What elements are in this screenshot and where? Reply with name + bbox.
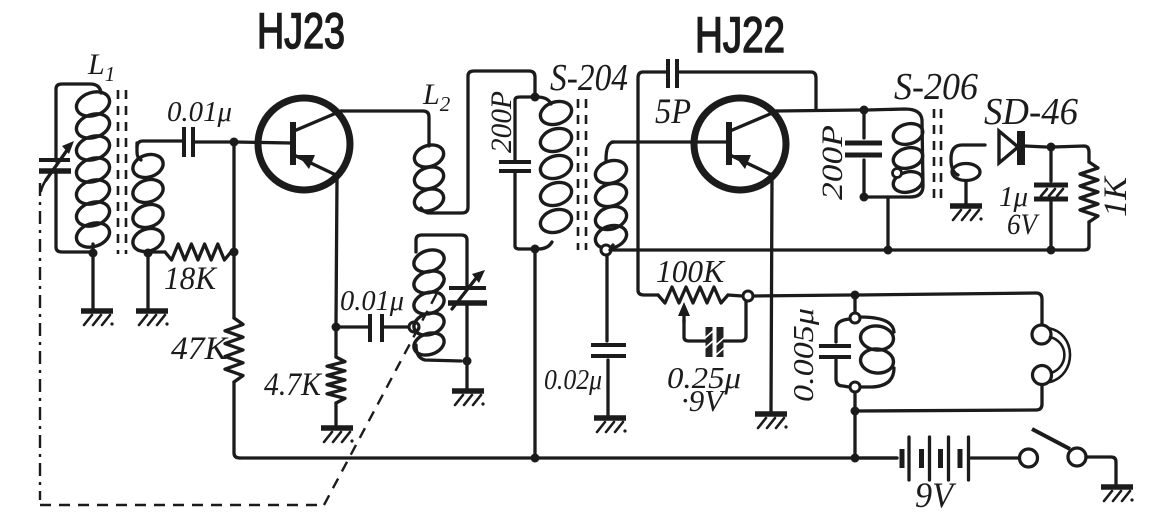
label 200P (C5) — [816, 125, 849, 200]
node L2 tap (open) — [409, 322, 419, 332]
label 0.01u (C1) — [167, 96, 232, 128]
label 47K — [171, 331, 229, 367]
wire node to C2 — [336, 325, 368, 328]
wire C1 to node A — [195, 140, 231, 143]
node S-206 return — [884, 246, 893, 255]
label 6V — [1007, 208, 1040, 241]
node filter top (open) — [850, 313, 860, 323]
resistor R3 4.7K — [327, 331, 345, 426]
label 1u — [999, 181, 1028, 213]
svg-text:HJ23: HJ23 — [257, 3, 345, 59]
ground L1 secondary — [136, 311, 169, 326]
svg-text:0.01μ: 0.01μ — [167, 96, 232, 128]
wire D1 to node B — [1025, 146, 1046, 147]
transistor Q2 collector lead — [730, 111, 777, 131]
transformer core S-204 — [578, 99, 586, 250]
svg-text:18K: 18K — [164, 261, 218, 297]
label 1K — [1098, 175, 1134, 217]
wire 47K to bottom bus — [234, 382, 240, 458]
node S-206 tap (open) — [893, 169, 902, 178]
node bus / S-204 — [531, 454, 540, 463]
label 0.005u — [789, 308, 820, 402]
wire switch to ground — [1086, 457, 1116, 484]
label 200P (C3) — [485, 91, 518, 153]
capacitor C8 0.25u 9V — [705, 327, 724, 357]
ground switch — [1101, 487, 1134, 502]
earphone terminal top — [1032, 325, 1051, 344]
transistor Q1 emitter arrow — [298, 155, 315, 169]
label 100K — [656, 253, 726, 289]
node C6 bottom — [1047, 246, 1056, 255]
node S-204 top — [531, 93, 540, 102]
capacitor C4 5P — [668, 59, 677, 88]
variable capacitor VC2 — [448, 270, 487, 358]
wire VC2 to ground — [465, 361, 468, 389]
wire Q1 emitter down — [336, 178, 337, 323]
transistor Q1 base bar — [290, 122, 296, 165]
coil L1 primary — [73, 88, 112, 253]
resistor R2 47K — [225, 318, 243, 382]
wire L1 primary to ground — [91, 253, 94, 309]
label HJ23 — [257, 3, 345, 59]
svg-text:HJ22: HJ22 — [695, 7, 785, 63]
svg-text:4.7K: 4.7K — [264, 367, 323, 403]
transistor Q2 emitter arrow — [734, 155, 751, 169]
ground C7 — [594, 418, 627, 433]
capacitor C6 1u 6V — [1034, 147, 1068, 246]
wire wiper to C8 — [684, 320, 705, 341]
wire C8 to 100K right — [724, 300, 746, 341]
wire Q2 collector to S-206 — [776, 110, 860, 111]
svg-text:S-206: S-206 — [894, 66, 978, 108]
transistor Q1 collector lead — [294, 111, 341, 131]
node 100K right (open) — [743, 291, 753, 301]
gang link dashed vertical — [39, 183, 41, 500]
wire bottom bus — [240, 456, 897, 459]
node filter bottom (open) — [850, 382, 860, 392]
wire 5P left down to 100K — [638, 72, 666, 295]
wire Q2 emitter to ground — [771, 178, 772, 412]
svg-text:47K: 47K — [171, 331, 229, 367]
wire node A down to 47K — [232, 145, 235, 318]
transformer core L1 — [118, 90, 126, 254]
wire VC1 to L1 bottom — [56, 173, 90, 252]
capacitor C9 0.005u — [819, 319, 851, 387]
svg-text:9V: 9V — [915, 475, 957, 515]
diode D1 SD-46 — [999, 131, 1025, 165]
wire supply rail — [610, 248, 1084, 251]
wire earphone bottom rail — [855, 385, 1042, 411]
earphone terminal bottom — [1033, 366, 1052, 385]
label SD-46 — [984, 91, 1078, 133]
node earphone return — [851, 407, 860, 416]
transistor Q2 base bar — [726, 122, 732, 165]
resistor R6 1K — [1080, 162, 1098, 250]
wire node down to filter — [853, 297, 856, 314]
ground R3 — [321, 428, 354, 443]
switch S1 lever — [1032, 429, 1070, 449]
coil S-204 primary — [537, 97, 575, 249]
switch S1 contact right — [1068, 448, 1086, 466]
svg-text:SD-46: SD-46 — [984, 91, 1078, 133]
wire node to battery bus — [853, 413, 856, 455]
svg-text:100K: 100K — [656, 253, 726, 289]
node collector / C5 — [860, 106, 869, 115]
capacitor C3 200P — [499, 97, 532, 249]
variable capacitor VC1 tuning — [39, 141, 74, 191]
wire Q1 collector to L2 — [340, 111, 429, 146]
wire 5P right to collector — [679, 72, 816, 109]
ground Q2 emitter — [755, 414, 788, 429]
node S-204 secondary bottom (open) — [601, 245, 611, 255]
coil S-206 secondary — [951, 145, 985, 204]
wire node A to Q1 base — [236, 142, 290, 143]
svg-text:5P: 5P — [655, 91, 691, 131]
coil L2 upper winding — [411, 141, 446, 214]
node AF / filter — [851, 291, 860, 300]
resistor R1 18K — [148, 244, 231, 260]
svg-text:1K: 1K — [1098, 175, 1134, 217]
node battery bus — [851, 454, 860, 463]
svg-text:200P: 200P — [816, 125, 849, 200]
wire S-206 bottom down — [886, 197, 889, 248]
gang link dashed horizontal — [40, 504, 322, 506]
transistor Q2 emitter lead — [730, 155, 774, 176]
ground L1 primary — [81, 311, 114, 326]
svg-text:S-204: S-204 — [550, 57, 628, 99]
label S-204 — [550, 57, 628, 99]
ground VC2 — [452, 391, 485, 406]
node VC2 bottom — [463, 357, 472, 366]
transistor Q2 HJ22 body — [694, 98, 786, 190]
coil L3 filter choke — [859, 317, 894, 387]
node S-204 bottom — [531, 245, 540, 254]
wire L1 secondary to ground — [146, 253, 149, 309]
label 18K — [164, 261, 218, 297]
label 0.02u — [544, 364, 602, 396]
wire AF out to earphone — [753, 295, 850, 296]
node A (Q1 base) — [230, 138, 239, 147]
label 5P — [655, 91, 691, 131]
label L1 — [87, 48, 115, 86]
transistor Q1 emitter lead — [294, 155, 338, 176]
capacitor C1 0.01u — [184, 127, 193, 157]
capacitor C7 0.02u — [591, 255, 626, 415]
node C5 bottom — [860, 193, 869, 202]
wire L1 top-left loop — [56, 84, 101, 161]
wire L1 secondary to C1 — [137, 141, 182, 147]
label S-206 — [894, 66, 978, 108]
coil L1 secondary — [130, 143, 166, 255]
node B (detector out) — [1047, 143, 1056, 152]
wire AF to earphone right — [858, 293, 1042, 324]
capacitor C5 200P — [845, 110, 882, 194]
earphone band — [1048, 328, 1070, 382]
svg-text:0.02μ: 0.02μ — [544, 364, 602, 396]
ground S-206 secondary — [950, 206, 983, 221]
label 9V (C8) — [681, 383, 726, 418]
wire C2 to L2 tap — [384, 325, 408, 328]
resistor R4 100K volume — [658, 287, 742, 303]
label HJ22 — [695, 7, 785, 63]
pot wiper arrow — [678, 302, 690, 322]
wire node B to 1K — [1053, 146, 1089, 162]
node 18K right — [230, 248, 239, 257]
svg-text:·9V: ·9V — [681, 383, 726, 418]
svg-text:0.005μ: 0.005μ — [789, 308, 820, 402]
coil L2 lower winding — [411, 235, 467, 361]
wire S-204 bottom to bus — [533, 252, 536, 458]
label 0.25u — [667, 360, 741, 395]
coil S-206 primary — [864, 109, 925, 197]
svg-text:0.01μ: 0.01μ — [340, 285, 404, 317]
label 0.01u (C2) — [340, 285, 404, 317]
label 9V (battery) — [915, 475, 957, 515]
label 4.7K — [264, 367, 323, 403]
svg-text:200P: 200P — [485, 91, 518, 153]
switch S1 contact left — [1020, 449, 1038, 467]
wire Q2 base — [612, 140, 726, 143]
wire L2 upper to S-204 top — [421, 71, 535, 213]
capacitor C2 0.01u — [370, 314, 382, 342]
transformer core S-206 — [934, 109, 941, 199]
wire filter to bottom rail — [853, 392, 856, 408]
transistor Q1 HJ23 body — [258, 98, 350, 190]
node L1 secondary bottom — [144, 249, 153, 258]
label L2 — [422, 78, 451, 116]
svg-text:6V: 6V — [1007, 208, 1040, 241]
node L1 primary bottom — [89, 249, 98, 258]
gang link dashed diagonal — [324, 278, 445, 505]
node Q1 emitter / C2 — [332, 323, 341, 332]
coil S-204 secondary — [592, 142, 629, 252]
battery BT1 9V — [860, 437, 1020, 480]
